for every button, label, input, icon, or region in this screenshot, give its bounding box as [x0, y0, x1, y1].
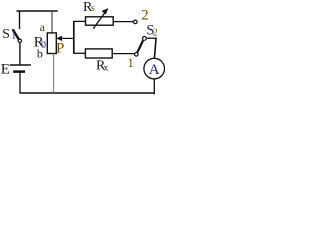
- svg-text:a: a: [40, 20, 46, 34]
- svg-text:S: S: [2, 27, 10, 42]
- svg-text:1: 1: [11, 31, 16, 42]
- svg-text:x: x: [104, 62, 109, 72]
- svg-text:2: 2: [153, 27, 158, 38]
- svg-text:b: b: [37, 47, 43, 61]
- svg-text:1: 1: [127, 55, 133, 70]
- svg-text:P: P: [56, 40, 64, 56]
- svg-text:E: E: [1, 62, 10, 78]
- svg-text:2: 2: [141, 7, 149, 23]
- svg-text:A: A: [149, 62, 160, 78]
- svg-text:s: s: [91, 3, 95, 14]
